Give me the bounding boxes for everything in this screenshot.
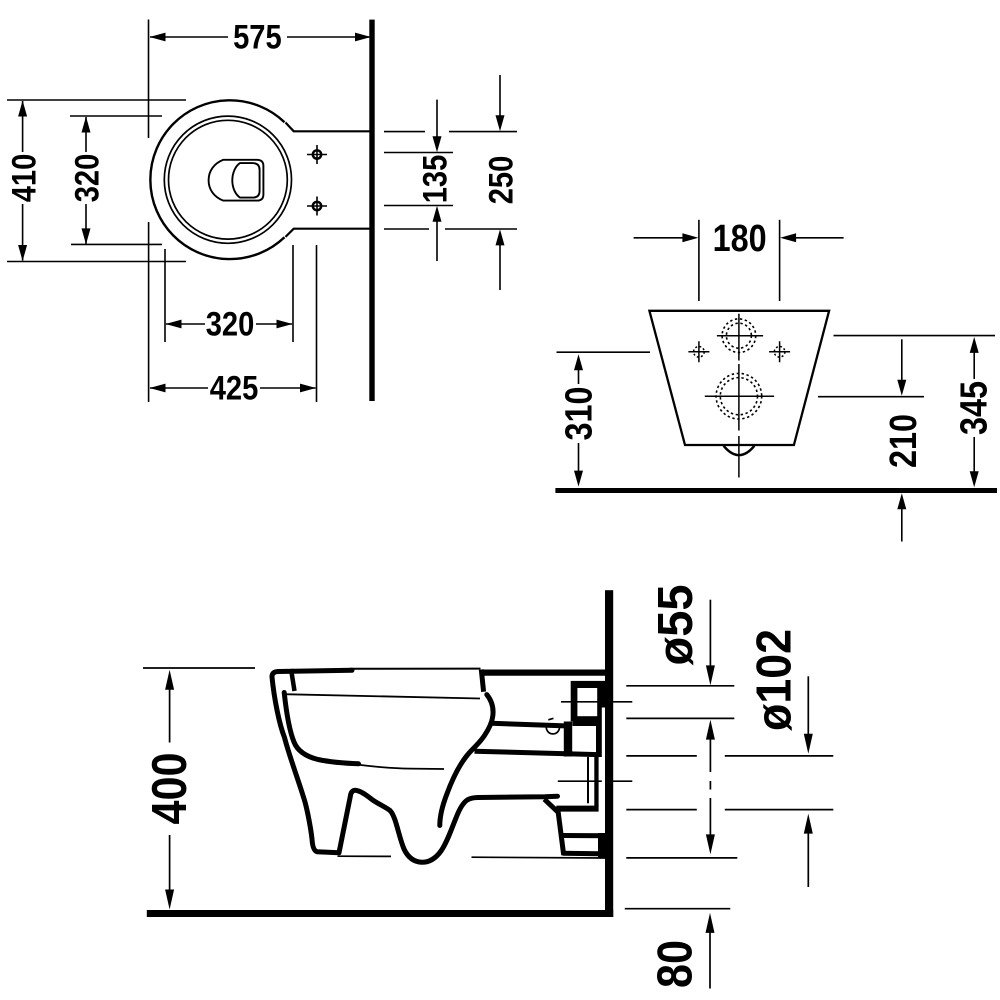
inlet pipe block (571, 681, 606, 721)
right ext line o102 top (626, 755, 833, 757)
bolt hole right (rear) (769, 341, 790, 362)
mounting hole crosshair top (plan) (307, 145, 327, 164)
svg-text:425: 425 (210, 370, 259, 408)
rear floor line (555, 488, 997, 493)
ext lines right of wall (tank top/bottom, holes) (384, 131, 517, 133)
right ext line o55 top (626, 685, 734, 687)
floor (side view) (147, 910, 613, 917)
trapezoid body (649, 311, 829, 445)
dim 180 (634, 218, 844, 260)
dim 410 (6, 101, 44, 262)
drain boss arc below (724, 446, 755, 455)
inlet pipe bottom band (573, 718, 598, 727)
duct right wall block (596, 721, 602, 757)
drain h-centerline (705, 395, 774, 397)
svg-text:ø102: ø102 (747, 629, 801, 731)
bowl rim inner circles (164, 116, 291, 243)
dim o55 (649, 585, 715, 686)
wall (plan, thick vertical) (369, 20, 374, 401)
duct arc detail (546, 727, 559, 734)
inlet circle dotted (722, 319, 756, 353)
tank front edge (481, 670, 483, 692)
svg-text:320: 320 (69, 154, 107, 203)
dim o102 (747, 629, 813, 754)
right lower arrow (o102 bottom) (804, 814, 813, 887)
bracket top (563, 833, 606, 838)
ext 410 top (7, 99, 186, 101)
dim 425 (150, 370, 317, 408)
drain right band (594, 756, 598, 807)
outlet under-edge (544, 799, 563, 855)
dim 320 vertical (69, 117, 107, 245)
ext 320v bottom (71, 243, 162, 245)
dim 320 horizontal (166, 306, 293, 344)
dim 250 (483, 75, 521, 290)
drain centerline (558, 780, 633, 782)
ext 320v top (70, 115, 162, 117)
bowl outer circle (150, 100, 284, 259)
ext line 575 left / 425 left (148, 20, 150, 403)
dim 210 (883, 339, 925, 541)
dim 400 (143, 670, 197, 910)
hidden bottom thin line (338, 856, 607, 858)
svg-text:410: 410 (6, 154, 44, 203)
right ext line o55 bottom (626, 717, 734, 719)
right ext line o102 bottom (626, 809, 833, 811)
bracket bottom (563, 851, 600, 857)
svg-text:210: 210 (883, 414, 925, 468)
right ext line floor (625, 908, 731, 910)
svg-text:ø55: ø55 (649, 585, 703, 666)
drain bottom thick (556, 806, 598, 812)
svg-text:180: 180 (713, 218, 767, 260)
dim 310 (558, 354, 600, 486)
flush duct bottom (475, 751, 599, 754)
inlet pipe bore (white) (577, 688, 597, 716)
svg-text:250: 250 (483, 156, 521, 205)
tank outline (plan) (286, 123, 375, 237)
right ext line bracket bottom (626, 857, 737, 859)
drain bore left thin (587, 757, 589, 803)
ext 180 right (779, 220, 781, 301)
ext 425 right (316, 245, 318, 402)
bowl rear wall / trap inner (440, 695, 493, 826)
wall slit (white) (602, 708, 605, 801)
flush hole outer egg shape (209, 160, 264, 201)
bowl inner wall (284, 693, 358, 764)
svg-text:400: 400 (143, 753, 197, 825)
seat thin line (284, 694, 481, 698)
dim 135 (417, 100, 455, 261)
svg-text:575: 575 (233, 19, 282, 57)
vertical centerline (738, 314, 740, 478)
duct divider block (564, 722, 572, 757)
svg-text:345: 345 (953, 381, 995, 435)
flush hole inner shape (232, 163, 259, 198)
ext 345 (inlet centerline to right) (834, 335, 996, 337)
svg-text:310: 310 (558, 387, 600, 441)
ext 210 (drain centerline to right) (818, 396, 924, 398)
water line (350, 764, 445, 770)
drain circle dotted inner (720, 378, 757, 415)
unlabeled center dim (pipe span) (706, 720, 715, 855)
rim top thin line (350, 668, 481, 670)
flush duct top (491, 723, 569, 726)
inlet circle dotted inner (726, 323, 751, 348)
dim 345 (953, 337, 995, 487)
inlet h-centerline (717, 335, 763, 337)
tank top thick (481, 669, 613, 675)
mounting hole crosshair bottom (plan) (307, 197, 327, 216)
toilet outer profile: front rim, front face, foot, trap U (272, 670, 558, 862)
dim 575 (150, 19, 372, 57)
dim 80 (648, 913, 714, 989)
svg-text:80: 80 (648, 940, 702, 988)
ext 400 top (143, 667, 255, 669)
bracket right fill (598, 833, 607, 858)
rim window right edge (291, 669, 295, 691)
ext 320h right (292, 245, 294, 342)
ext 310 (left, at bolt height) (557, 351, 651, 353)
bolt hole left (rear) (688, 341, 709, 362)
ext 410 bottom (7, 261, 186, 263)
drain circle dotted outer (716, 373, 762, 419)
ext 180 left (698, 220, 700, 301)
wall (side view) (605, 590, 613, 917)
svg-text:135: 135 (417, 155, 455, 204)
ext 320h left (164, 249, 166, 342)
tiny rim mark (548, 718, 553, 720)
inlet centerline (561, 701, 632, 703)
svg-text:320: 320 (206, 306, 255, 344)
